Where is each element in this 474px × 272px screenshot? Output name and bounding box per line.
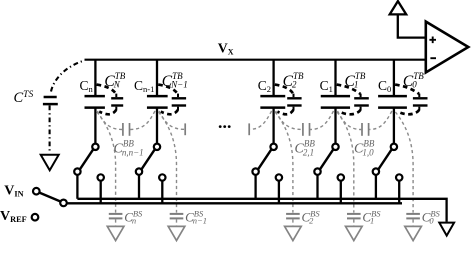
- switch S_0 pole contact: [391, 144, 397, 150]
- capacitor C^TS: [44, 96, 57, 99]
- switch S_1 throw contact (input rail): [338, 174, 344, 180]
- capacitor C^TB_0 (parasitic, dashed): [395, 85, 419, 94]
- capacitor C_n-1: [147, 95, 168, 98]
- wire bus to capacitor C_0: [393, 60, 395, 95]
- capacitor C^BS_0 (parasitic, gray) wire: [395, 112, 413, 213]
- wire node to C^BB_1,0 left plate: [338, 111, 362, 130]
- capacitor C^BS_n (parasitic, gray): [109, 213, 123, 215]
- wire top-plate bus V_X: [85, 59, 426, 61]
- capacitor C_n: [85, 95, 105, 98]
- capacitor C^TB_N (parasitic, dashed): [97, 85, 116, 94]
- wire bus to capacitor C_n: [94, 60, 96, 95]
- svg-text:CBB1,0: CBB1,0: [354, 138, 375, 157]
- switch S_2 throw contact (input rail): [276, 174, 282, 180]
- ground (C^BS_1): [346, 226, 363, 240]
- clock arrow above comparator: [390, 1, 407, 14]
- capacitor C^BS_2 (parasitic, gray) wire: [275, 112, 293, 213]
- capacitor C^BB half-plate left of C_2: [248, 123, 250, 135]
- wire throw to ground rail: [375, 175, 377, 199]
- wire capacitor C_1 to switch pole: [334, 108, 336, 144]
- wire input rail (bottom throws): [67, 202, 402, 204]
- switch S_n-1 blade: [141, 149, 155, 169]
- switch S_n-1 pole contact: [154, 144, 160, 150]
- wire node to C^BB_n,n−1 right plate: [130, 111, 155, 130]
- capacitor C^BB_2,1 (parasitic, gray): [302, 123, 304, 136]
- wire node to C^BB_2,1 left plate: [276, 111, 303, 130]
- wire ground rail (top throws): [77, 199, 446, 222]
- capacitor C^BS_0 (parasitic, gray): [406, 213, 420, 215]
- switch S_1 throw contact (ground rail): [314, 168, 320, 174]
- capacitor C_0: [378, 95, 407, 98]
- ground (rail): [439, 223, 454, 236]
- capacitor C_1: [321, 95, 350, 98]
- op-amp U1 comparator: [426, 22, 469, 73]
- switch S_1 blade: [320, 149, 334, 169]
- wire bus to capacitor C_1: [334, 60, 336, 95]
- capacitor C^BS_n−1 (parasitic, gray) wire: [159, 112, 177, 213]
- switch S_n throw contact (ground rail): [74, 168, 80, 174]
- switch S_1 pole contact: [332, 144, 338, 150]
- wire throw to ground rail: [138, 175, 140, 199]
- node V_IN terminal: [33, 188, 40, 195]
- wire comparator + input: [398, 14, 426, 37]
- wire bus to capacitor C_2: [272, 60, 274, 95]
- capacitor C^BS_1 (parasitic, gray): [347, 213, 361, 215]
- wire throw to input rail: [161, 181, 163, 204]
- wire throw to ground rail: [254, 175, 256, 199]
- wire (dash-dot) C^TS to bus: [51, 60, 85, 91]
- pin + label: [429, 37, 436, 44]
- switch S_2 pole contact: [270, 144, 276, 150]
- wire node to C^BB_n,n−1 left plate: [97, 111, 122, 130]
- switch S_2 throw contact (ground rail): [252, 168, 258, 174]
- wire node to C^BB_2,1 right plate: [310, 111, 333, 130]
- switch S_n blade: [80, 149, 94, 169]
- switch S_n throw contact (input rail): [98, 174, 104, 180]
- switch S_2 blade: [258, 149, 272, 169]
- capacitor C^TB_N−1 (parasitic, dashed): [158, 85, 178, 94]
- svg-text:CBB2,1: CBB2,1: [295, 138, 316, 157]
- wire bus to capacitor C_n-1: [156, 60, 158, 95]
- wire throw to ground rail: [316, 175, 318, 199]
- capacitor C^BS_2 (parasitic, gray): [286, 213, 300, 215]
- wire throw to input rail: [398, 181, 400, 204]
- wire throw to ground rail: [76, 175, 78, 199]
- switch input select pole contact: [60, 200, 67, 207]
- wire throw to input rail: [278, 181, 280, 204]
- pin - label: [430, 57, 436, 59]
- capacitor C^BS_n−1 (parasitic, gray): [170, 213, 184, 215]
- wire capacitor C_n to switch pole: [94, 108, 96, 144]
- wire capacitor C_2 to switch pole: [272, 108, 274, 144]
- switch S_0 blade: [378, 149, 392, 169]
- ground (C^BS_0): [405, 226, 422, 240]
- capacitor C_2: [260, 95, 285, 98]
- wire capacitor C_0 to switch pole: [393, 108, 395, 144]
- capacitor C^BS_n (parasitic, gray) wire: [97, 112, 116, 213]
- ground (C^BS_n−1): [168, 226, 185, 240]
- switch S_0 throw contact (input rail): [396, 174, 402, 180]
- ground (C^BS_2): [285, 226, 302, 240]
- switch input select blade: [39, 193, 60, 202]
- capacitor C^BB half-plate right of C_n-1: [184, 123, 186, 135]
- capacitor C^TB_2 (parasitic, dashed): [275, 85, 293, 94]
- capacitor C^BS_1 (parasitic, gray) wire: [337, 112, 354, 213]
- wire throw to input rail: [340, 181, 342, 204]
- capacitor C^TB_1 (parasitic, dashed): [337, 85, 361, 94]
- switch S_n-1 throw contact (ground rail): [136, 168, 142, 174]
- wire capacitor C_n-1 to switch pole: [156, 108, 158, 144]
- capacitor C^BB_n,n−1 (parasitic, gray): [122, 123, 124, 136]
- switch S_n pole contact: [92, 144, 98, 150]
- node V_REF terminal: [32, 214, 39, 221]
- wire node to C^BB_1,0 right plate: [369, 111, 392, 130]
- wire throw to input rail: [100, 181, 102, 204]
- ground (C^BS_n): [107, 226, 124, 240]
- switch S_n-1 throw contact (input rail): [159, 174, 165, 180]
- node continuation dots ...: [219, 125, 222, 128]
- capacitor C^BB_1,0 (parasitic, gray): [361, 123, 363, 136]
- ground (C^TS): [41, 155, 59, 171]
- wire (dash-dot) C^TS to ground: [49, 106, 51, 153]
- switch S_0 throw contact (ground rail): [373, 168, 379, 174]
